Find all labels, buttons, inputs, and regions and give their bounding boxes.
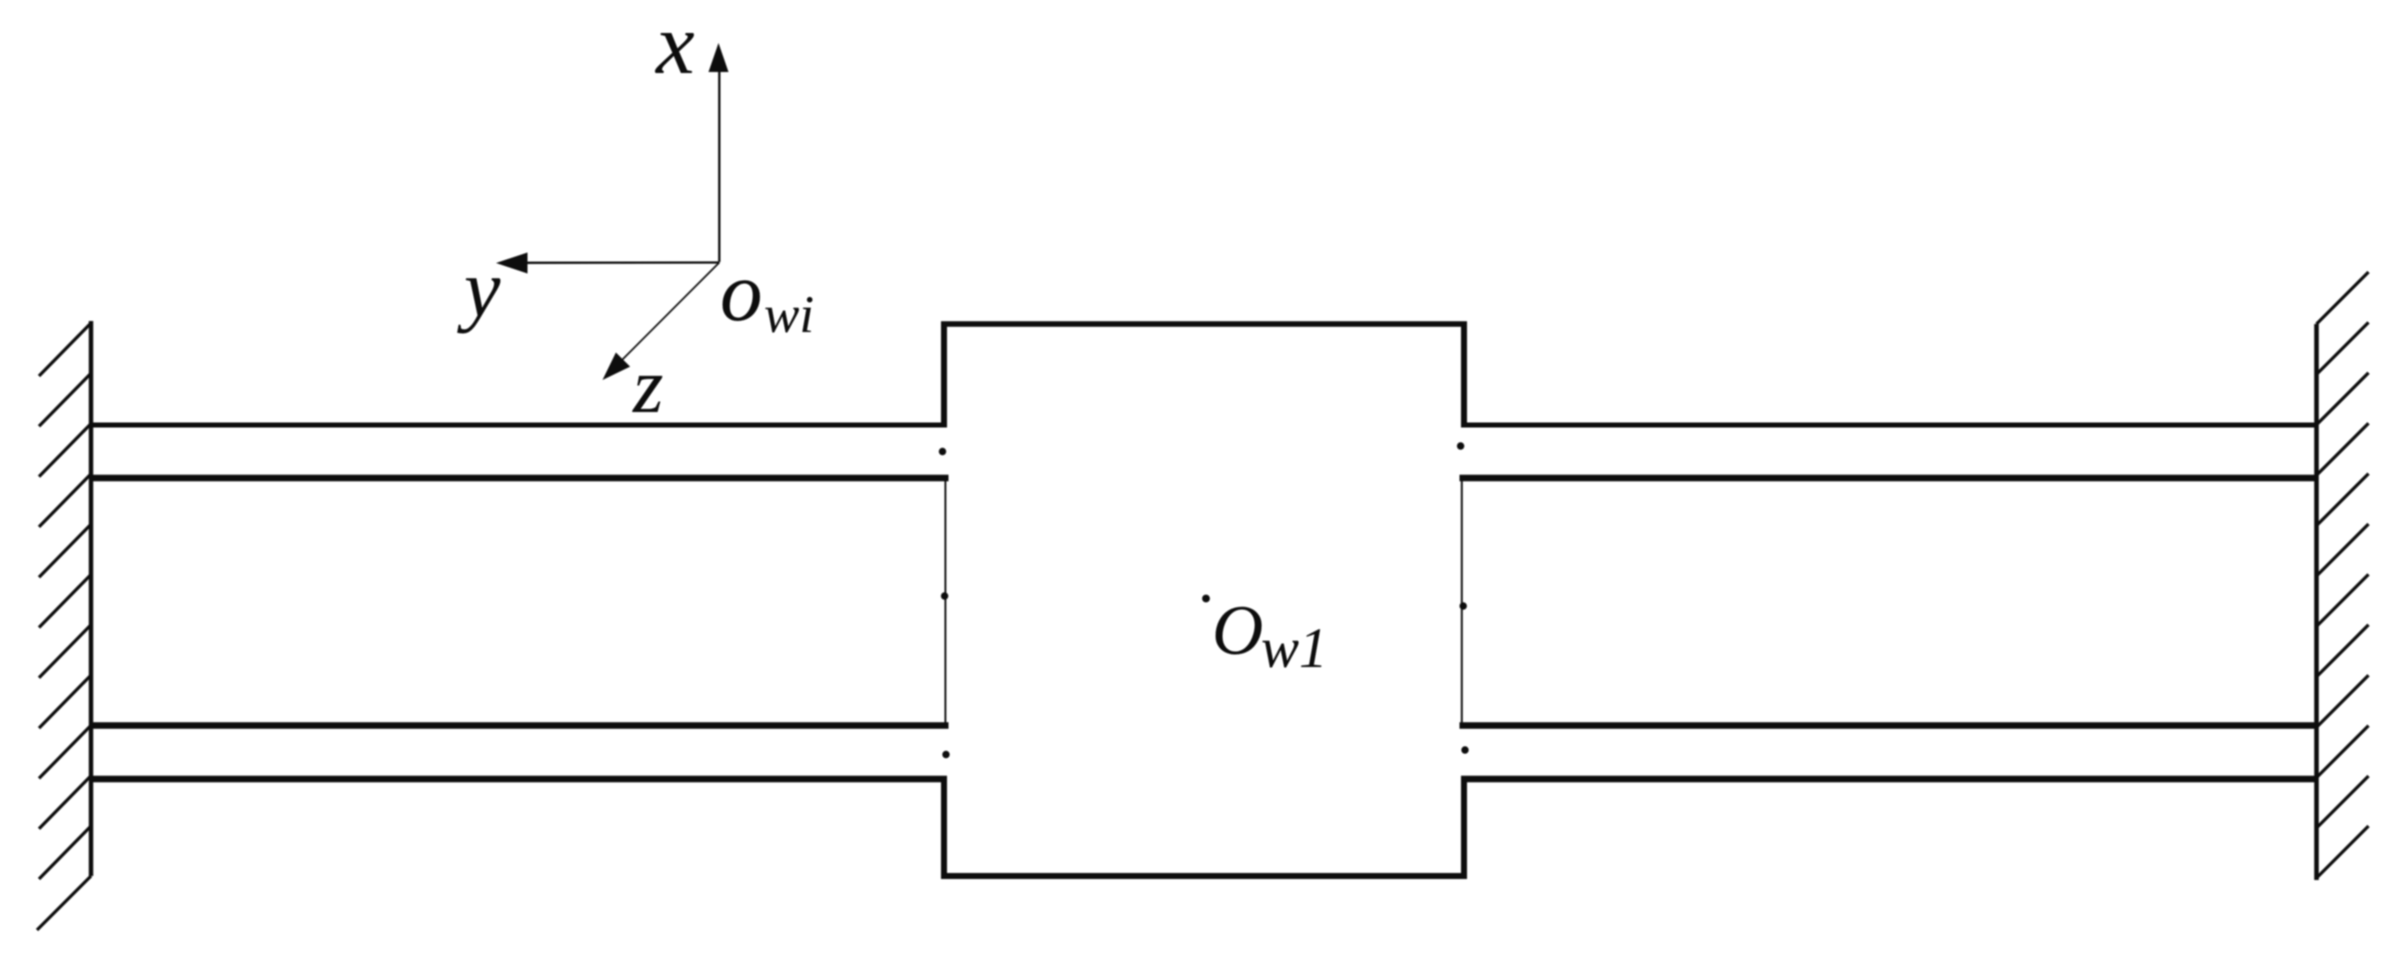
y axis line bbox=[522, 261, 719, 264]
shaft upper outer line, left segment bbox=[89, 423, 947, 428]
center dot of block origin Ow1 bbox=[1202, 595, 1210, 603]
disk block top edge bbox=[941, 321, 1467, 327]
svg-text:O: O bbox=[1212, 592, 1263, 670]
node dot upper left bbox=[939, 448, 946, 455]
y axis arrowhead bbox=[496, 253, 528, 274]
disk block left edge upper part bbox=[941, 322, 947, 428]
disk block left edge lower part bbox=[941, 776, 947, 879]
node dot lower left bbox=[942, 751, 949, 758]
z axis line bbox=[612, 263, 719, 371]
disk block inner thin left line bbox=[944, 481, 946, 723]
shaft upper outer line, right segment bbox=[1461, 423, 2318, 428]
disk block inner thin right line bbox=[1461, 481, 1463, 723]
z axis arrowhead bbox=[603, 353, 631, 381]
disk block bottom edge bbox=[941, 873, 1467, 879]
shaft lower outer line, right segment bbox=[1461, 776, 2318, 783]
svg-text:w1: w1 bbox=[1261, 617, 1328, 680]
node dot upper right bbox=[1457, 442, 1464, 449]
x axis arrowhead bbox=[709, 43, 729, 72]
shaft upper inner line, right segment bbox=[1460, 475, 2319, 482]
shaft lower inner line, left segment bbox=[89, 722, 949, 729]
disk block right edge lower part bbox=[1461, 776, 1467, 879]
node dot middle left bbox=[941, 592, 948, 599]
shaft lower inner line, right segment bbox=[1460, 722, 2319, 729]
x axis line bbox=[718, 70, 720, 262]
disk block right edge upper part bbox=[1461, 322, 1467, 428]
svg-text:wi: wi bbox=[764, 286, 814, 344]
svg-text:z: z bbox=[632, 342, 663, 429]
svg-text:y: y bbox=[457, 243, 501, 334]
svg-text:o: o bbox=[720, 245, 763, 339]
node dot middle right bbox=[1460, 602, 1467, 609]
node dot lower right bbox=[1461, 746, 1468, 753]
left fixed support wall bbox=[37, 321, 91, 930]
right fixed support wall bbox=[2317, 272, 2369, 880]
shaft lower outer line, left segment bbox=[89, 776, 947, 783]
svg-text:x: x bbox=[654, 0, 695, 92]
shaft upper inner line, left segment bbox=[89, 475, 949, 482]
